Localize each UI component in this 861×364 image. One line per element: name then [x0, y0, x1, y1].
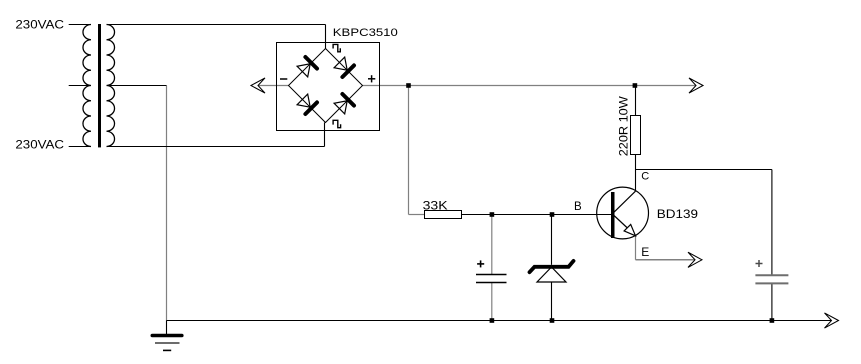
svg-text:33K: 33K	[423, 201, 448, 213]
svg-text:220R 10W: 220R 10W	[616, 96, 630, 157]
svg-text:230VAC: 230VAC	[15, 140, 64, 152]
svg-text:BD139: BD139	[657, 209, 698, 221]
svg-text:B: B	[574, 201, 582, 213]
svg-text:KBPC3510: KBPC3510	[333, 27, 398, 39]
svg-text:C: C	[641, 171, 649, 183]
svg-text:230VAC: 230VAC	[15, 19, 64, 31]
svg-text:E: E	[641, 245, 649, 259]
